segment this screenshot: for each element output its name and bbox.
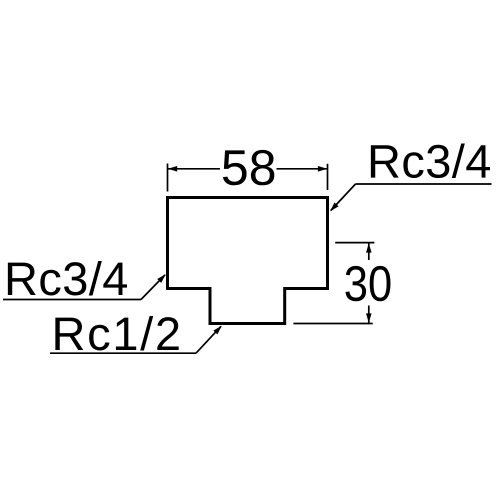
leader line Rc3/4 left: [141, 275, 165, 300]
dimension line 30 lower segment: [368, 306, 370, 323]
dimension text 30: [345, 266, 390, 301]
extension line left (58): [167, 164, 169, 192]
dimension line 30 upper segment: [368, 243, 370, 260]
leader arrow Rc3/4 top right: [328, 203, 339, 214]
leader underline Rc1/2: [50, 352, 196, 354]
dimension line 58 left segment: [168, 168, 220, 170]
leader arrow Rc3/4 left: [157, 272, 168, 283]
leader line Rc1/2: [196, 326, 221, 353]
dimension text 58: [223, 150, 274, 185]
fitting body outline: [168, 198, 328, 324]
arrow 30 up: [366, 243, 372, 252]
leader arrow Rc1/2: [213, 324, 224, 335]
extension line right (58): [327, 164, 329, 190]
centerline tick (30 top): [335, 242, 374, 244]
leader underline Rc3/4 left: [3, 299, 141, 301]
arrow 30 down: [366, 313, 372, 322]
label Rc3/4 top right: [371, 144, 490, 179]
label Rc3/4 left: [8, 261, 127, 296]
label Rc1/2 bottom: [55, 316, 178, 351]
extension line bottom (30): [293, 323, 372, 325]
leader line Rc3/4 top right: [331, 184, 356, 211]
arrow 58 right: [318, 166, 327, 172]
arrow 58 left: [168, 166, 177, 172]
leader underline Rc3/4 top right: [356, 183, 492, 185]
dimension line 58 right segment: [277, 168, 328, 170]
